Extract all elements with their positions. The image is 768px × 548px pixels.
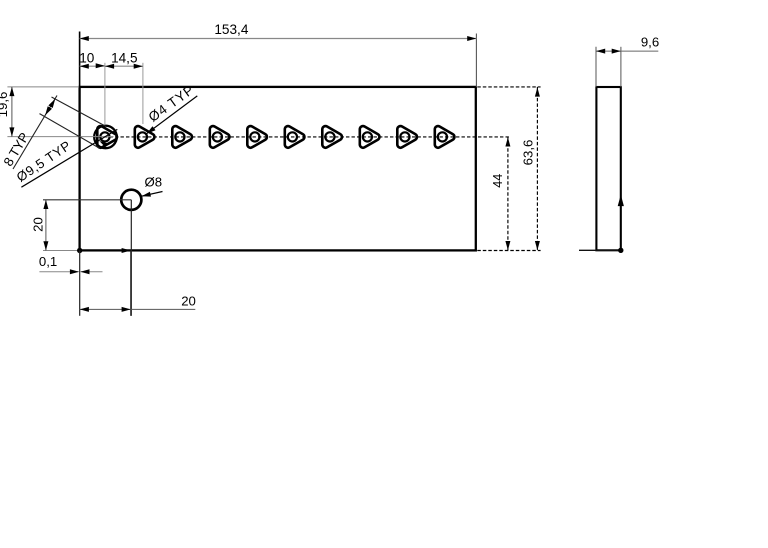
dimension 63,6 plate height bbox=[477, 87, 540, 251]
triangular punch hole H7 bbox=[322, 126, 342, 148]
dimension 14,5 hole pitch bbox=[105, 50, 143, 124]
datum origin dot at side view bottom-right corner bbox=[618, 248, 623, 253]
svg-text:44: 44 bbox=[491, 174, 505, 188]
dimension 10 first hole offset bbox=[79, 50, 105, 125]
dimension 44 centerline from bottom bbox=[491, 137, 510, 250]
triangular punch hole H2 bbox=[135, 126, 155, 148]
svg-text:Ø8: Ø8 bbox=[145, 175, 163, 190]
triangular punch hole H10 bbox=[435, 126, 455, 148]
side view outline bbox=[596, 87, 620, 250]
dimension 0,1 bbox=[39, 251, 103, 316]
triangular punch hole H9 bbox=[397, 126, 417, 148]
triangular punch hole H1 bbox=[97, 126, 117, 148]
dashed centerline through holes bbox=[93, 136, 511, 138]
crosshair extensions of hole diam 8 bbox=[43, 200, 131, 316]
plate front view outline bbox=[80, 87, 476, 251]
triangular punch hole H5 bbox=[247, 126, 267, 148]
triangular punch hole H8 bbox=[360, 126, 380, 148]
dimension 9,6 side view thickness bbox=[596, 34, 659, 87]
datum arrow on bottom edge pointing right bbox=[122, 248, 131, 253]
svg-text:0,1: 0,1 bbox=[39, 254, 57, 269]
svg-text:20: 20 bbox=[31, 217, 46, 232]
dimension 8 TYP triangle width across flats bbox=[0, 96, 104, 170]
side view bottom-left extension line bbox=[579, 249, 623, 251]
triangular punch hole H6 bbox=[285, 126, 305, 148]
datum origin dot at plate bottom-left corner bbox=[77, 248, 82, 253]
datum arrow on side view right edge pointing up bbox=[618, 195, 624, 207]
svg-text:10: 10 bbox=[79, 50, 95, 65]
dimension 20 horizontal hole offset bbox=[80, 251, 196, 316]
leader note diam 4 TYP bbox=[146, 82, 198, 134]
svg-text:19,6: 19,6 bbox=[0, 92, 10, 118]
dimension 19,6 centerline from top bbox=[0, 87, 113, 137]
dimension 153,4 top width bbox=[80, 22, 477, 87]
triangular punch hole H3 bbox=[172, 126, 192, 148]
svg-text:9,6: 9,6 bbox=[641, 34, 659, 49]
dimension 20 vertical hole offset bbox=[31, 200, 79, 251]
leader note diam 8 bbox=[142, 175, 163, 197]
svg-text:153,4: 153,4 bbox=[214, 22, 248, 37]
svg-text:20: 20 bbox=[181, 294, 196, 309]
circumscribed circle (diam 9,5) on hole H1 bbox=[94, 126, 117, 149]
triangular punch hole H4 bbox=[210, 126, 230, 148]
svg-text:63,6: 63,6 bbox=[521, 140, 536, 166]
round hole diam 8 bbox=[121, 190, 141, 210]
svg-text:14,5: 14,5 bbox=[111, 50, 137, 65]
leader note diam 9,5 TYP bbox=[14, 129, 118, 187]
